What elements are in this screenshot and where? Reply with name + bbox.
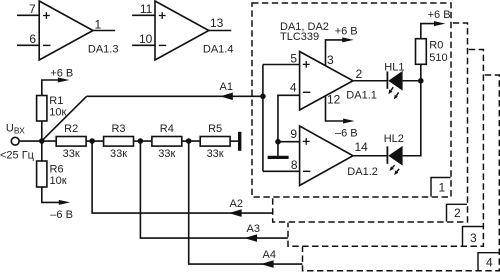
resistor R0 [416,39,427,65]
svg-text:33к: 33к [158,148,175,160]
LED HL1 triangle [388,71,402,91]
power arrow -6 В (pin 12) [343,119,354,124]
dashed enclosure block 3 [288,50,483,247]
comparator DA1.2 minus marker [303,170,310,172]
wire node down to HL2 [403,81,421,156]
svg-text:7: 7 [29,2,36,16]
wire input rail to R2 [19,140,56,142]
svg-text:R4: R4 [160,123,174,135]
wire A1 [87,95,263,97]
svg-text:<25 Гц: <25 Гц [0,149,35,161]
arrow A1 [222,93,232,99]
wire R4 to R5 [182,140,200,142]
block 3 corner tag bracket [463,227,483,246]
wire DA1.3 pin 7 lead [17,14,39,16]
LED HL1 light arrow b [396,92,398,95]
svg-text:DA1.4: DA1.4 [203,44,234,56]
op-amp DA1.3 [39,1,93,60]
svg-text:1: 1 [438,181,445,195]
wire pin 8 lead [263,170,300,172]
svg-text:5: 5 [290,51,297,65]
power arrow -6 В (R6) [59,200,70,205]
arrow A2 [231,210,241,216]
LED HL2 light arrow b [397,169,399,172]
block 1 corner tag bracket [431,178,451,197]
svg-text:11: 11 [140,2,153,16]
wire diagonal from divider node to A1 [42,96,87,141]
wire DA1.2 output to HL2 [353,155,387,157]
svg-text:DA1.3: DA1.3 [88,44,119,56]
resistor R3 [104,137,134,147]
wire pin 9 lead [278,141,300,143]
wire R2 to R3 [86,140,104,142]
svg-text:12: 12 [327,93,341,107]
comparator DA1.1 plus marker [303,61,310,68]
op-amp DA1.3 minus marker [43,44,50,46]
SECTION: input divider [11,78,302,268]
wire DA1.3 pin 6 lead [17,44,39,46]
resistor R2 [56,137,86,147]
svg-text:14: 14 [355,140,369,154]
svg-text:HL1: HL1 [384,62,404,74]
input terminal Uвх [11,137,19,145]
wire DA1.1 output to HL1 [353,80,387,82]
wire R1 top and +6V feed [42,80,59,96]
svg-text:4: 4 [486,256,493,270]
svg-text:2: 2 [356,67,363,81]
power arrow +6 В (R1) [58,78,69,83]
svg-text:R2: R2 [64,123,78,135]
common bar at R5 output [238,132,241,151]
svg-text:9: 9 [290,127,297,141]
LED HL2 light arrow a [392,165,394,167]
wire DA1.4 output pin 13 lead [209,30,232,32]
wire pin 12 and -6V feed [326,96,346,121]
svg-text:510: 510 [429,52,447,64]
junction node ground bus [275,139,281,145]
wire A2 [92,141,273,213]
SECTION: comparator block [260,21,445,185]
svg-text:HL2: HL2 [384,133,404,145]
svg-text:33к: 33к [63,148,80,160]
svg-text:A2: A2 [230,198,243,210]
wire R1 bottom to R6 top [41,121,43,161]
op-amp DA1.4 [155,1,209,60]
op-amp DA1.4 plus marker [159,12,166,19]
wire R0 top and +6V feed [421,24,436,39]
svg-text:DA1.1: DA1.1 [346,89,377,101]
dashed enclosure block 1 [252,3,451,197]
LED HL2 cathode bar [386,146,388,163]
block 4 corner tag bracket [478,253,499,271]
svg-text:R1: R1 [49,95,63,107]
svg-text:DA1.2: DA1.2 [347,166,378,178]
svg-text:10к: 10к [50,175,67,187]
op-amp DA1.3 plus marker [43,12,50,19]
comparator DA1.2 [300,126,353,186]
svg-text:+6 В: +6 В [335,25,358,37]
wire DA1.4 pin 11 lead [132,14,155,16]
svg-text:A3: A3 [247,223,260,235]
svg-text:R5: R5 [208,123,222,135]
SECTION: dashed blocks [252,3,499,271]
junction node divider [39,138,45,144]
op-amp DA1.4 minus marker [159,44,166,46]
wire R6 bottom and -6V feed [42,187,60,202]
LED HL2 triangle [388,146,402,166]
wire ground drop [277,142,279,156]
svg-text:4: 4 [290,80,297,94]
svg-text:R0: R0 [429,40,443,52]
wire A1 bus vertical [262,65,264,172]
resistor R6 [37,161,47,187]
wire HL1 to node [403,80,421,82]
svg-text:A1: A1 [220,81,233,93]
svg-text:13: 13 [210,16,224,30]
comparator DA1.1 [300,52,353,111]
power arrow +6 В (pin 3) [342,37,353,42]
arrow A3 [247,235,257,241]
svg-text:8: 8 [291,158,298,172]
svg-text:R6: R6 [50,164,64,176]
wire A4 [189,141,303,264]
wire pin 3 and +6V feed [326,40,345,66]
wire R5 to common bar [230,140,238,142]
wire R3 to R4 [134,140,152,142]
resistor R5 [200,137,230,147]
wire DA1.4 pin 10 lead [132,44,155,46]
svg-text:3: 3 [470,231,477,245]
svg-text:10к: 10к [49,107,66,119]
resistor R4 [152,137,182,147]
svg-text:3: 3 [327,53,334,67]
svg-text:R3: R3 [111,123,125,135]
dashed enclosure block 4 [303,75,500,271]
svg-text:10: 10 [139,32,153,46]
junction node A1 bus [260,94,266,100]
svg-text:33к: 33к [110,148,127,160]
arrow A4 [263,261,273,267]
comparator DA1.1 minus marker [303,91,310,93]
wire R0 bottom to node [420,64,422,81]
resistor R1 [37,96,47,122]
svg-text:A4: A4 [263,249,276,261]
common bar (ground) [268,156,289,159]
svg-text:+6 В: +6 В [50,67,73,79]
svg-text:–6 В: –6 В [50,209,73,221]
LED HL1 light arrow a [391,87,393,90]
wire DA1.3 output pin 1 lead [93,30,115,32]
block 2 corner tag bracket [447,204,468,221]
svg-text:33к: 33к [207,148,224,160]
dashed enclosure block 2 [273,23,468,222]
junction node R2/R3 [89,138,95,144]
wire pin 5 lead [263,64,300,66]
svg-text:–6 В: –6 В [335,128,358,140]
svg-text:1: 1 [95,17,102,31]
power arrow +6 В (R0) [434,21,445,26]
junction node R4/R5 [186,138,192,144]
comparator DA1.2 plus marker [303,138,310,145]
svg-text:2: 2 [454,206,461,220]
wire A3 [140,141,288,238]
junction node LED common [418,78,424,84]
SECTION: spare op-amps [17,1,231,60]
svg-text:+6 В: +6 В [428,9,451,21]
svg-text:TLC339: TLC339 [280,31,319,43]
svg-text:6: 6 [29,32,36,46]
junction node R3/R4 [138,138,144,144]
wire pin 4 to ground bus [278,95,300,141]
LED HL1 cathode bar [386,71,388,88]
